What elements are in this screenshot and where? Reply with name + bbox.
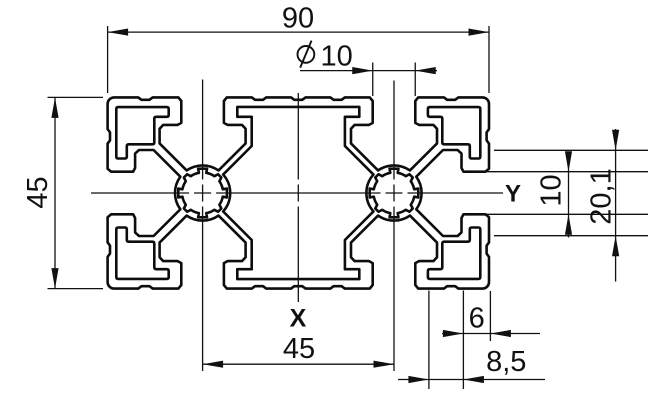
dim 45 left line	[54, 97, 56, 288]
svg-text:10: 10	[536, 174, 568, 206]
svg-text:6: 6	[469, 303, 485, 335]
dia10 dim line	[300, 70, 437, 72]
dim 90 extension lines	[107, 26, 109, 93]
dia symbol	[298, 46, 315, 63]
dia10 arrows (outside)	[352, 67, 373, 74]
dim 6 arrows (outside)	[443, 330, 464, 337]
dim 90 line	[108, 31, 489, 33]
dim 6 extension lines	[462, 291, 464, 390]
core 1 bore gear	[178, 169, 227, 218]
dim 8,5 line	[398, 379, 545, 381]
dia10 extension lines	[372, 63, 374, 97]
corner block cavity top-right	[428, 107, 480, 158]
dim 20,1 extension lines	[494, 149, 648, 151]
core 1 vertical centerline	[202, 80, 204, 180]
svg-text:45: 45	[283, 333, 315, 365]
horizontal centerline Y axis	[91, 192, 189, 194]
dim 6 line	[442, 333, 540, 335]
svg-text:90: 90	[282, 3, 314, 35]
dim 20,1 line	[615, 129, 617, 282]
profile outer silhouette with T-slots	[108, 97, 489, 288]
dim 45 bottom line	[203, 363, 394, 365]
svg-text:Y: Y	[505, 181, 521, 208]
core 2 bore gear	[370, 169, 419, 218]
dim 45 left arrows	[51, 97, 58, 118]
dim 20,1 arrows (outside)	[612, 130, 619, 151]
dim 8,5 arrows (outside)	[408, 376, 429, 383]
middle box cavity	[223, 107, 373, 279]
corner block cavity bottom-left	[116, 228, 168, 279]
dim 8,5 extension line	[428, 291, 430, 390]
svg-text:10: 10	[321, 41, 353, 73]
dim 45 left extension lines	[48, 96, 104, 98]
corner block cavity bottom-right	[428, 228, 480, 279]
svg-text:8,5: 8,5	[486, 346, 526, 378]
profile middle vertical centerline	[297, 93, 299, 180]
dim 10 right line	[568, 152, 570, 238]
svg-text:20,1: 20,1	[586, 168, 618, 224]
dim 10 right extension lines	[486, 171, 648, 173]
svg-text:X: X	[290, 305, 307, 333]
corner block cavity top-left	[116, 107, 168, 158]
svg-text:45: 45	[22, 176, 54, 208]
dim 10 right arrows (outside)	[565, 151, 572, 172]
dim 45 bottom arrows	[203, 361, 224, 368]
core 2 vertical centerline	[393, 81, 395, 180]
dim 90 arrows	[108, 29, 129, 36]
